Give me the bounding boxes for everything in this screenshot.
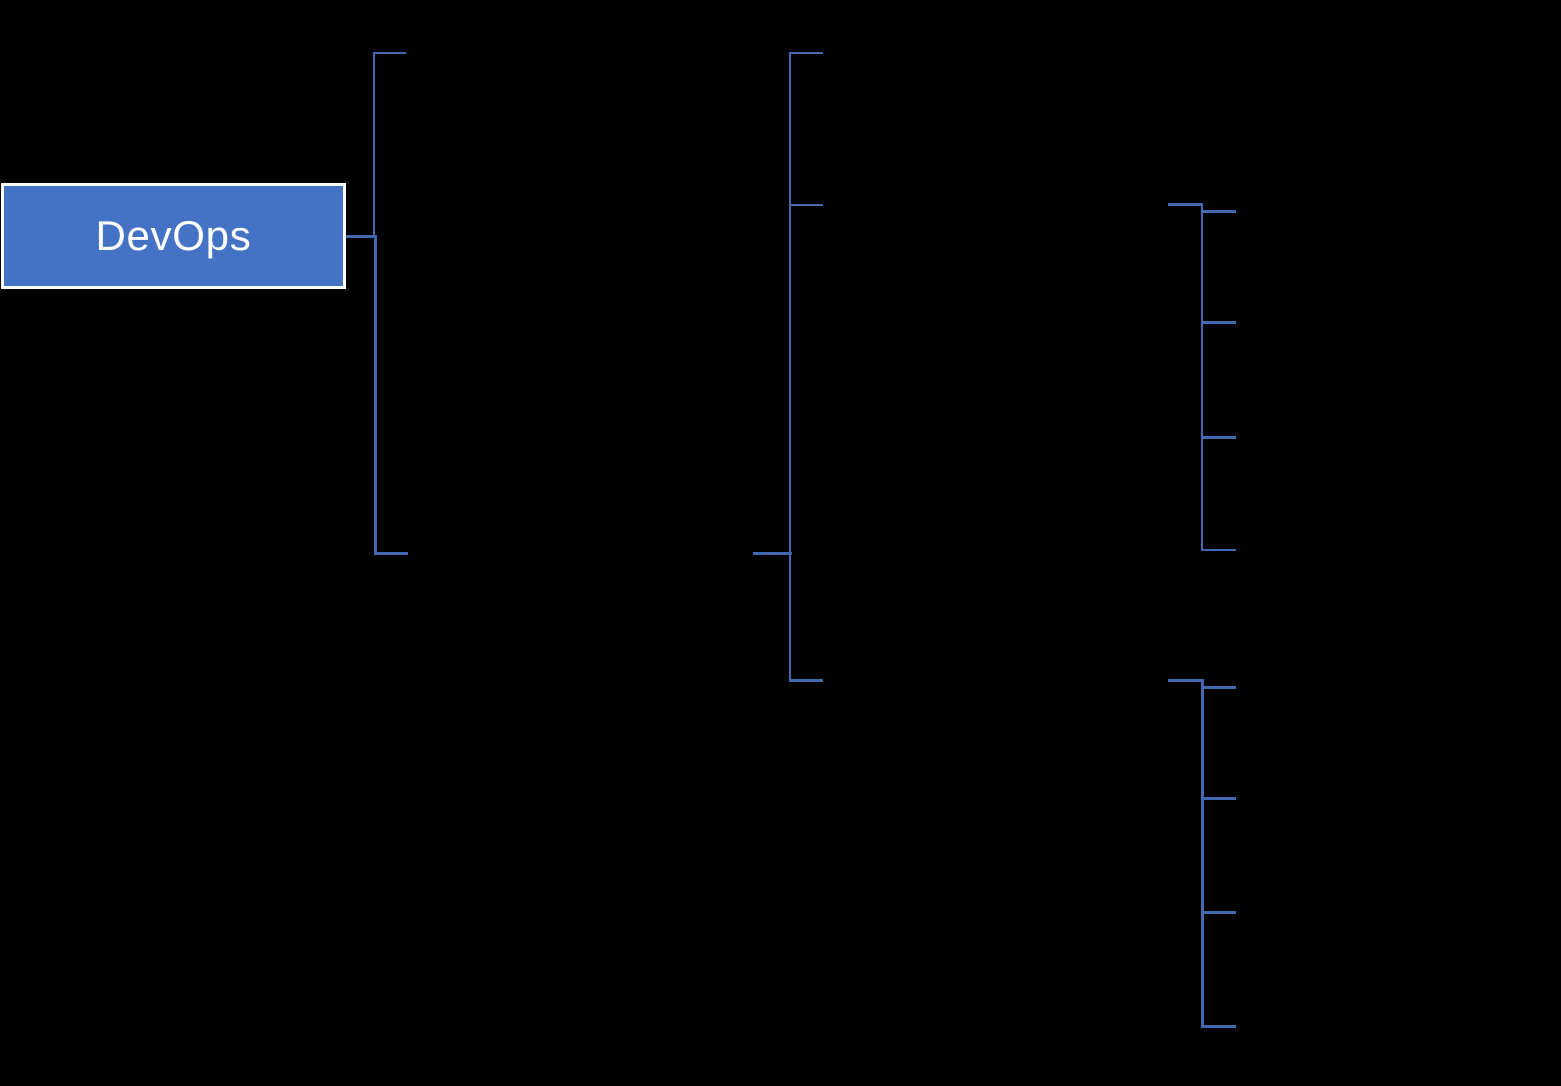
bracket B1 vertical lower	[374, 236, 377, 554]
wire node to bracket B2 stub	[753, 552, 792, 555]
label DevOps	[1, 211, 346, 261]
bracket B4 tick 2	[1201, 797, 1236, 800]
bracket B3 vertical	[1201, 203, 1204, 551]
bracket B2 mid tick	[789, 204, 823, 207]
bracket B1 bottom tick	[374, 552, 407, 555]
wire DevOps to bracket B1	[346, 235, 377, 238]
bracket B3 tick 2	[1201, 321, 1236, 324]
node DevOps	[1, 183, 346, 289]
bracket B3 tick 1	[1201, 210, 1236, 213]
bracket B1 vertical upper	[373, 52, 376, 238]
bracket B4 tick 3	[1201, 911, 1236, 914]
bracket B4 vertical	[1201, 679, 1204, 1028]
bracket B4 bottom tick	[1201, 1025, 1236, 1028]
bracket B3 tick 3	[1201, 436, 1236, 439]
bracket B4 tick 1	[1201, 686, 1236, 689]
wire node to bracket B4 stub	[1168, 679, 1204, 682]
bracket B2 bottom tick	[789, 679, 823, 682]
wire node to bracket B3 stub	[1168, 203, 1203, 206]
bracket B3 bottom tick	[1201, 549, 1236, 552]
bracket B2 top tick	[789, 52, 823, 55]
bracket B2 vertical	[789, 52, 792, 682]
bracket B1 top tick	[373, 52, 406, 55]
